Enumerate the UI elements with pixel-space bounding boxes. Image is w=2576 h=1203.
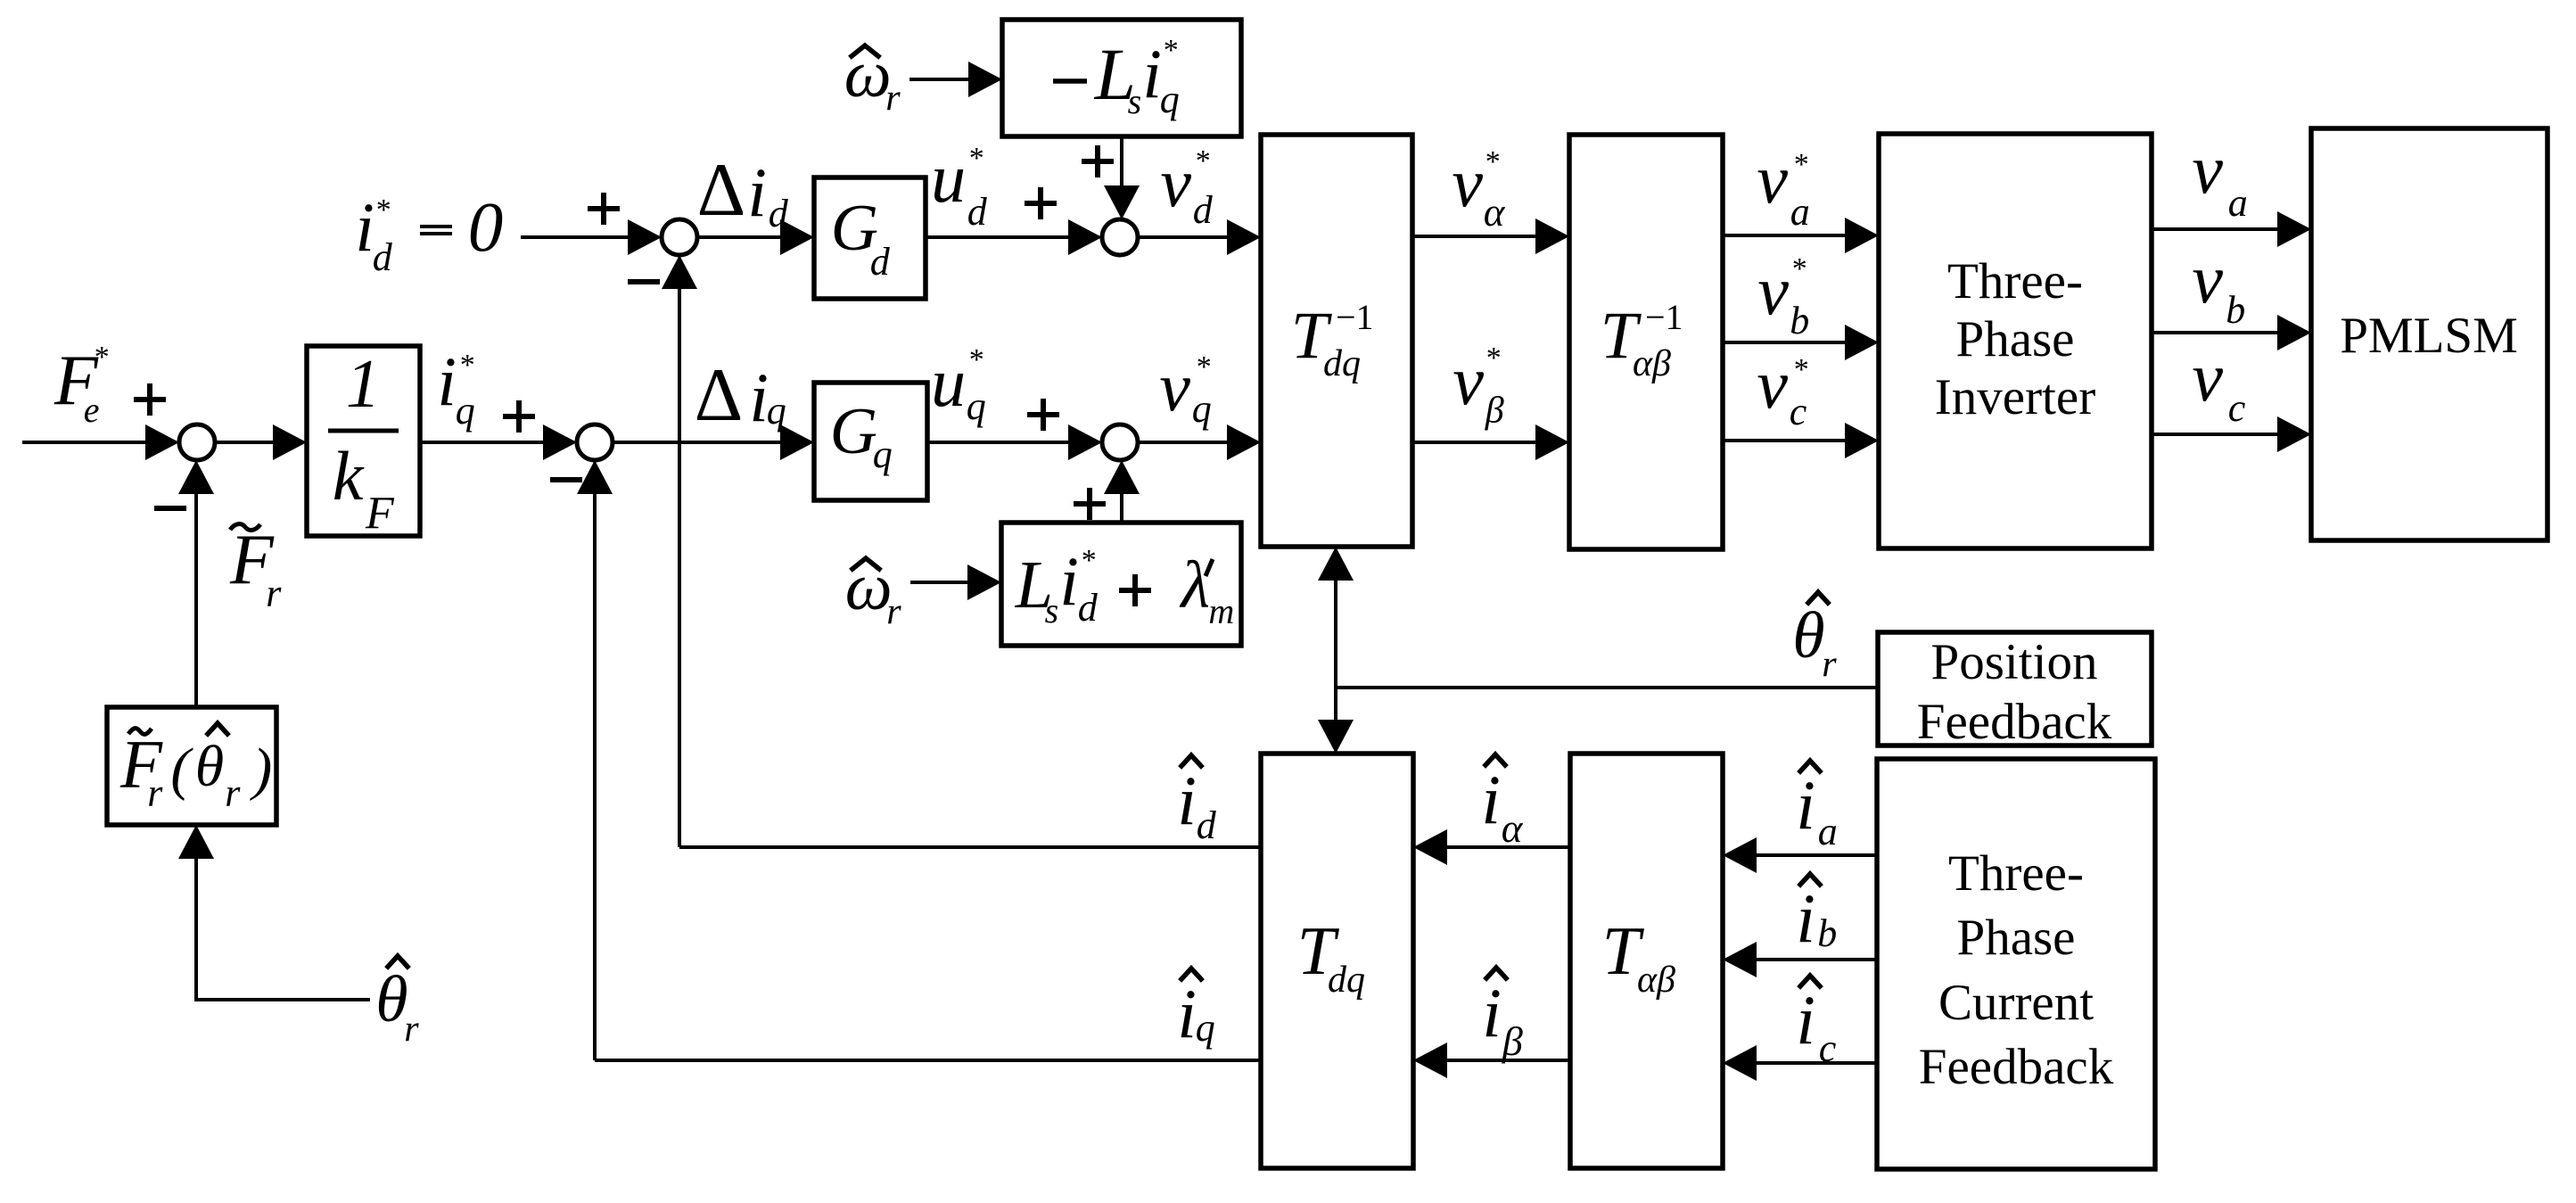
wire F*e input to sum1 [22,441,148,444]
svg-text:v: v [1160,144,1191,221]
wire omega_r to -Lsiq block [909,78,971,81]
svg-text:r: r [404,1009,419,1050]
arrow v*beta into Tab-1 [1535,424,1569,460]
plus sign before sum vq [1027,399,1059,431]
block Tab clarke transform [1570,754,1723,1168]
arrow into -Lsiq block [968,62,1002,97]
svg-text:*: * [1164,34,1179,67]
arrow up into Tdq-1 bottom [1318,547,1354,581]
minus sign at sum2 [550,477,582,482]
svg-text:e: e [84,390,100,430]
svg-text:v: v [1453,342,1484,419]
summing junction sum vd [1102,219,1138,255]
wire iq feedback from Tdq to sum2 [595,1059,1261,1062]
svg-text:*: * [1197,350,1212,383]
svg-text:d: d [1193,188,1214,232]
wire v*beta Tdq-1 to Tab-1 [1412,441,1538,444]
svg-text:Feedback: Feedback [1919,1039,2114,1095]
wire Fr block to sum1 (force feedback) [194,494,198,707]
svg-text:a: a [2228,181,2248,225]
svg-text:λ: λ [1180,548,1210,622]
arrow vc into PMLSM [2277,416,2311,452]
svg-text:v: v [1452,144,1483,221]
svg-text:α: α [1502,806,1524,851]
wire omega_r to Lsid block [910,581,970,584]
svg-text:i: i [1796,879,1815,957]
arrow into 1/kF [273,424,307,460]
svg-text:Three-: Three- [1947,253,2083,309]
svg-text:r: r [225,770,241,814]
arrow down into Tdq top [1318,720,1354,754]
plus sign at sum2 [503,400,535,433]
svg-text:v: v [2192,130,2223,208]
wire sum2 to Gq [613,441,783,444]
svg-text:G: G [830,395,877,468]
svg-text:Phase: Phase [1956,311,2075,367]
svg-text:q: q [967,384,986,428]
wire v*c Tab-1 to inverter [1723,439,1848,442]
plus sign above sum vd [1082,145,1114,177]
svg-text:a: a [1818,810,1838,853]
wire id feedback from Tdq to sum3 [679,845,1261,849]
svg-text:u: u [931,343,966,421]
svg-text:d: d [769,192,789,235]
svg-text:*: * [1196,144,1211,177]
arrow i_a into Tab [1723,837,1757,873]
svg-text:*: * [1082,544,1097,577]
svg-text:−1: −1 [1336,297,1374,337]
svg-text:v: v [1757,345,1788,423]
block PMLSM [2311,128,2547,540]
svg-text:*: * [1792,252,1807,285]
svg-text:i: i [1482,974,1502,1051]
svg-text:q: q [1160,78,1180,121]
svg-text:d: d [1078,586,1099,630]
svg-text:k: k [333,437,365,515]
arrow up into Fr block [178,825,214,859]
svg-text:a: a [1790,190,1810,234]
arrow into Tdq-1 (q input) [1227,424,1261,460]
arrow up into sum2 [577,460,613,494]
wire va inverter to PMLSM [2152,227,2280,231]
block Tab-1 inverse clarke transform [1569,135,1723,549]
svg-text:Phase: Phase [1957,910,2076,966]
svg-text:PMLSM: PMLSM [2340,308,2518,364]
svg-text:dq: dq [1328,960,1365,1001]
arrow into sum2 [543,424,577,460]
svg-text:d: d [967,190,988,234]
svg-text:q: q [1196,1006,1215,1050]
arrow v*c into inverter [1845,423,1879,458]
svg-text:i: i [1177,975,1197,1052]
arrow into sum3 [628,219,662,255]
wire theta_r to Fr block (L-shape) [194,998,370,1001]
svg-text:b: b [2226,288,2245,332]
svg-text:r: r [1822,644,1837,685]
svg-text:θ: θ [375,963,407,1036]
svg-text:i: i [437,342,457,420]
svg-text:θ: θ [195,734,224,799]
svg-text:β: β [1485,391,1504,432]
block Gd current controller [814,177,926,299]
svg-text:i: i [1796,766,1815,844]
svg-text:*: * [1794,353,1809,386]
wire i_b current feedback to Tab [1757,958,1877,961]
wire 1/kF to sum2 (i*q) [420,441,546,444]
wire v*alpha Tdq-1 to Tab-1 [1412,235,1538,238]
block Gq current controller [814,383,927,500]
svg-text:*: * [1486,145,1501,178]
block Fr(theta_r) ripple model [107,707,276,825]
arrow up into sum vq [1104,460,1140,494]
svg-text:b: b [1790,299,1809,342]
svg-text:1: 1 [346,345,381,422]
svg-text:b: b [1817,911,1837,955]
arrow into Tdq-1 (d input) [1227,219,1261,255]
svg-text:*: * [1794,148,1809,181]
minus sign at sum1 [154,506,186,511]
label -Ls i*q inside block [1053,78,1087,84]
svg-text:r: r [266,571,282,614]
wire vc inverter to PMLSM [2152,433,2280,436]
plus sign below sum vq [1074,488,1106,520]
wire theta_r vertical to Tdq-1 and Tdq [1334,581,1337,720]
wire -Lsiq block down to sum vd [1120,136,1123,185]
svg-text:dq: dq [1323,343,1361,384]
block Tdq-1 inverse park transform [1261,135,1412,547]
svg-text:θ: θ [1792,599,1824,672]
svg-text:d: d [1197,803,1217,847]
arrow up into sum3 [662,255,697,289]
svg-text:*: * [460,349,475,382]
block Ls i*d + lambda'm decoupling [1001,523,1241,646]
svg-text:q: q [1192,387,1212,431]
svg-text:Feedback: Feedback [1917,694,2112,750]
wire v*a Tab-1 to inverter [1723,234,1848,237]
svg-text:Three-: Three- [1948,845,2084,902]
svg-text:*: * [1486,342,1502,375]
svg-text:s: s [1045,590,1059,630]
wire Lsid block up to sum vq [1120,494,1123,523]
minus sign at sum3 [628,279,660,284]
svg-text:c: c [1819,1026,1837,1070]
wire sum3 to Gd [697,235,783,239]
svg-text:c: c [1790,390,1807,433]
svg-text:Δ: Δ [697,148,746,232]
svg-text:*: * [969,142,984,175]
arrow v*a into inverter [1845,218,1879,253]
svg-text:q: q [767,389,786,433]
wire sum vd to Tdq-1 [1138,235,1230,239]
svg-text:): ) [249,737,272,802]
arrow v*alpha into Tab-1 [1535,218,1569,254]
svg-text:v: v [2192,240,2223,317]
wire i*d=0 to sum3 [521,235,630,239]
svg-text:q: q [456,389,475,433]
arrow into Gd [780,219,814,255]
svg-text:i: i [1177,762,1197,839]
svg-text:*: * [95,341,110,374]
arrow down into sum vd [1104,185,1140,219]
wire i_alpha Tab to Tdq [1447,845,1570,849]
svg-text:F: F [365,489,395,540]
block Tdq park transform [1261,754,1413,1168]
block position feedback [1878,632,2152,746]
svg-text:i: i [1059,542,1079,620]
arrow i_alpha into Tdq [1413,829,1447,865]
block -Ls i*q decoupling [1002,20,1241,136]
svg-text:d: d [870,240,891,284]
svg-text:v: v [1757,251,1789,329]
arrow into Lsid block [967,564,1001,600]
svg-text:0: 0 [468,189,504,267]
summing junction sum1 (force error) [179,424,215,460]
svg-text:v: v [1159,348,1190,425]
summing junction sum vq [1102,424,1138,460]
arrow into sum vd [1068,219,1102,255]
wire sum vq to Tdq-1 [1138,441,1230,444]
block three-phase current feedback [1877,759,2155,1169]
svg-text:i: i [747,153,767,231]
svg-text:αβ: αβ [1637,960,1675,1001]
wire Gq to sum vq [927,441,1071,444]
block 1/kF [307,346,420,536]
svg-text:v: v [1757,140,1788,218]
wire v*b Tab-1 to inverter [1723,341,1848,344]
svg-text:q: q [873,433,893,476]
wire i_a current feedback to Tab [1757,853,1877,857]
plus sign at sum3 [588,193,620,225]
svg-text:Position: Position [1931,634,2098,690]
arrow up into sum1 [178,460,214,494]
plus sign before sum vd [1025,187,1057,219]
summing junction sum3 (d current error) [662,219,697,255]
arrow i_b into Tab [1723,942,1757,977]
summing junction sum2 (q current error) [577,424,613,460]
svg-text:r: r [886,591,901,632]
wire i_c current feedback to Tab [1757,1061,1877,1065]
svg-text:*: * [969,343,984,376]
arrow into sum vq [1068,424,1102,460]
wire sum1 to 1/kF block [215,441,276,444]
svg-text:β: β [1502,1018,1523,1064]
svg-text:αβ: αβ [1633,343,1671,384]
svg-text:r: r [885,78,901,119]
svg-text:Δ: Δ [695,353,744,437]
svg-text:d: d [373,235,393,279]
svg-text:u: u [931,139,966,217]
arrow into sum1 [145,424,179,460]
arrow i_c into Tab [1723,1045,1757,1081]
arrow v*b into inverter [1845,325,1879,360]
wire Gd to sum vd [926,235,1071,239]
arrow i_beta into Tdq [1413,1042,1447,1078]
wire vb inverter to PMLSM [2152,331,2280,334]
block three-phase inverter [1879,134,2152,548]
arrow vb into PMLSM [2277,315,2311,350]
svg-text:i: i [1796,981,1815,1059]
svg-text:Current: Current [1938,975,2094,1031]
svg-text:−1: −1 [1645,297,1683,337]
arrow into Gq [780,424,814,460]
svg-text:s: s [1128,81,1142,121]
wire i_beta Tab to Tdq [1447,1059,1570,1062]
arrow va into PMLSM [2277,211,2311,247]
wire theta_r from position feedback [1336,686,1878,689]
svg-text:c: c [2228,386,2246,430]
svg-text:α: α [1484,190,1506,235]
svg-text:v: v [2192,338,2223,416]
plus sign at sum1 [134,383,166,416]
svg-text:r: r [147,770,163,814]
svg-text:m: m [1208,590,1234,630]
svg-text:Inverter: Inverter [1935,369,2095,425]
svg-text:i: i [1481,761,1501,838]
svg-text:*: * [376,194,391,227]
